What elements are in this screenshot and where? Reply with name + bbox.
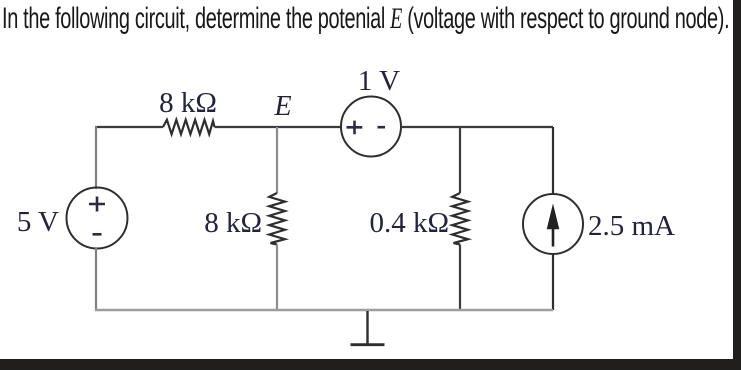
resistor R3 0.4k vertical zigzag [452, 193, 468, 245]
wire: node E branch upper [276, 127, 278, 193]
voltage source V2 1V circle [341, 97, 401, 157]
resistor R1 8k horizontal zigzag [163, 120, 215, 134]
wire: 0.4k branch upper [459, 127, 461, 193]
svg-text:0.4 kΩ: 0.4 kΩ [369, 207, 449, 239]
wire: top-left horizontal segment [95, 126, 163, 128]
svg-text:1 V: 1 V [358, 65, 400, 97]
V2 minus sign [378, 126, 386, 129]
ground stem [366, 311, 368, 344]
svg-text:E: E [273, 91, 291, 122]
svg-text:5 V: 5 V [17, 206, 59, 238]
title text [2, 2, 729, 36]
wire: left vertical lower [95, 248, 97, 311]
V1 plus sign [89, 197, 105, 212]
ground bar [351, 343, 385, 346]
wire: bottom horizontal [95, 309, 553, 312]
V2 plus sign [347, 121, 363, 135]
current source I1 circle [523, 194, 583, 254]
svg-text:8 kΩ: 8 kΩ [159, 87, 217, 119]
right black border bar [733, 0, 741, 370]
svg-text:2.5 mA: 2.5 mA [588, 210, 675, 242]
svg-text:8 kΩ: 8 kΩ [204, 207, 262, 239]
bottom black border bar [0, 359, 741, 370]
wire: top-right horizontal segment [401, 126, 553, 128]
wire: 0.4k branch lower [459, 245, 461, 311]
wire: right vertical lower [552, 253, 554, 310]
wire: node E branch lower [276, 245, 278, 311]
I1 arrow [552, 228, 555, 247]
resistor R2 8k vertical zigzag [269, 193, 285, 245]
wire: top middle segment to 1V source [215, 126, 342, 128]
wire: right vertical upper [552, 127, 554, 195]
wire: left vertical upper [95, 126, 97, 189]
V1 minus sign [93, 233, 102, 236]
voltage source V1 5V circle [67, 188, 128, 249]
